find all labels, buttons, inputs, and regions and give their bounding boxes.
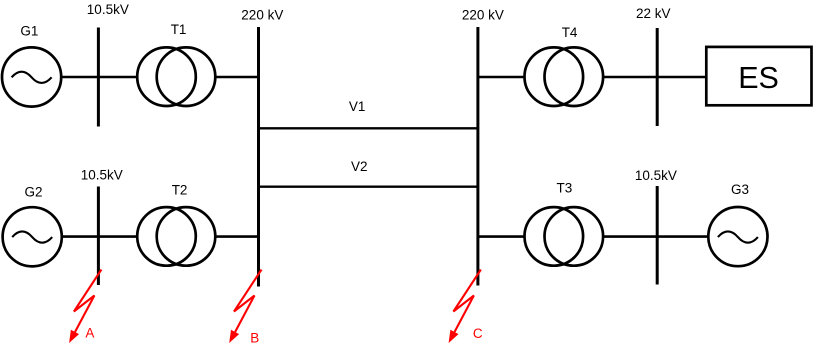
svg-text:V1: V1 [349, 99, 366, 114]
svg-text:V2: V2 [351, 159, 368, 174]
svg-text:G2: G2 [25, 184, 43, 199]
svg-text:220 kV: 220 kV [462, 7, 504, 22]
svg-text:220 kV: 220 kV [241, 8, 283, 23]
svg-text:10.5kV: 10.5kV [87, 2, 129, 17]
svg-text:G3: G3 [731, 182, 749, 197]
svg-text:T4: T4 [562, 25, 578, 40]
svg-text:T3: T3 [557, 180, 573, 195]
svg-text:T1: T1 [171, 22, 187, 37]
svg-text:10.5kV: 10.5kV [635, 168, 677, 183]
svg-text:T2: T2 [172, 182, 188, 197]
svg-text:G1: G1 [20, 23, 38, 38]
svg-text:A: A [85, 325, 94, 340]
svg-text:C: C [473, 326, 483, 341]
svg-text:10.5kV: 10.5kV [81, 167, 123, 182]
svg-text:22 kV: 22 kV [636, 6, 671, 21]
svg-text:B: B [250, 330, 259, 345]
svg-text:ES: ES [738, 61, 779, 95]
